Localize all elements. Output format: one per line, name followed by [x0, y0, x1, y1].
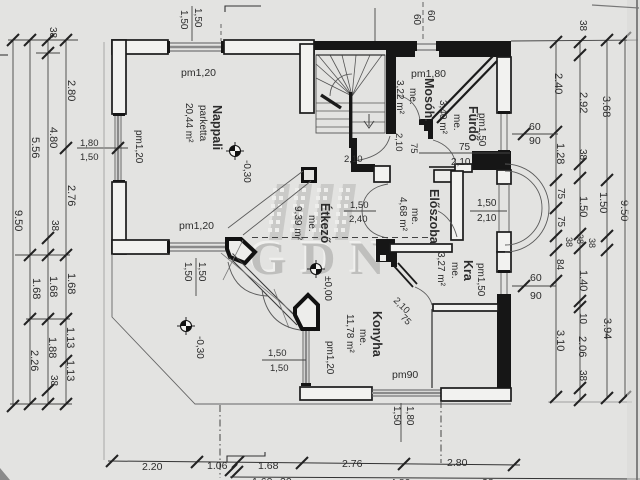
- bottom bracket 1.68: [227, 452, 265, 462]
- bottom ticks: [106, 455, 520, 471]
- svg-text:me.: me.: [449, 262, 460, 279]
- wall top stairs black: [314, 41, 386, 50]
- svg-text:pm1,20: pm1,20: [181, 67, 216, 79]
- svg-text:pm1,20: pm1,20: [133, 130, 144, 164]
- svg-text:2,40: 2,40: [349, 214, 368, 225]
- svg-text:38: 38: [577, 370, 588, 382]
- window W1 top Nappali: [167, 41, 224, 53]
- wall end block diagonal: [419, 119, 433, 131]
- staircase newel bar: [349, 92, 352, 148]
- chamfer door leaf perpendicular 2: [274, 289, 289, 328]
- svg-text:38: 38: [47, 27, 58, 39]
- svg-text:2.80: 2.80: [447, 457, 468, 469]
- svg-text:1,50: 1,50: [350, 200, 369, 211]
- svg-text:90: 90: [529, 135, 541, 147]
- svg-text:1,50: 1,50: [192, 8, 203, 28]
- beam line column to chamfer 2: [243, 181, 311, 235]
- svg-text:Konyha: Konyha: [370, 311, 384, 358]
- svg-text:1.68: 1.68: [258, 460, 279, 472]
- svg-text:pm1,20: pm1,20: [179, 220, 214, 232]
- dim line Fürdő door: [419, 152, 510, 154]
- staircase rail diagonal: [321, 95, 341, 108]
- chamfer door swing arc 2: [262, 290, 300, 330]
- svg-text:1.68: 1.68: [30, 278, 42, 299]
- left chain line 2: [29, 40, 31, 404]
- svg-text:2.76: 2.76: [342, 458, 363, 470]
- svg-text:1,50: 1,50: [477, 198, 497, 209]
- window W2 top 60: [414, 41, 439, 51]
- wall top middle: [224, 40, 314, 54]
- svg-text:9,39 m²: 9,39 m²: [292, 206, 303, 241]
- dashed opening line Étkező Konyha: [252, 237, 428, 239]
- svg-text:me.: me.: [306, 215, 317, 232]
- right chain line 4: [624, 38, 626, 397]
- scan shading right edge: [627, 0, 640, 480]
- svg-text:38: 38: [564, 237, 574, 247]
- right top connector: [511, 40, 638, 41]
- wall top Mosóh thicker: [386, 41, 415, 57]
- stair inner top line: [316, 54, 385, 56]
- right chain line 2: [579, 42, 581, 400]
- diagonal wall Mosóh Fürdő: [432, 56, 497, 123]
- wall corridor horizontal: [351, 164, 375, 172]
- svg-text:Mosóh.: Mosóh.: [422, 78, 436, 122]
- door Fürdő arc: [433, 140, 456, 165]
- svg-text:Előszoba: Előszoba: [427, 189, 441, 245]
- right ticks: [550, 32, 631, 406]
- level marker Konyha: [307, 260, 325, 278]
- wall Kamra west: [391, 252, 397, 267]
- staircase outline: [316, 55, 385, 133]
- svg-text:me.: me.: [409, 208, 420, 225]
- chamfer door leaf perpendicular 1: [223, 240, 243, 280]
- svg-text:1.13: 1.13: [64, 360, 76, 381]
- svg-text:4.80: 4.80: [47, 127, 59, 148]
- svg-text:3.68: 3.68: [600, 96, 612, 117]
- svg-text:1.50: 1.50: [597, 192, 609, 213]
- wall corner pentagon P2 chamfer bottom: [295, 295, 318, 329]
- door entrance arc: [438, 211, 457, 237]
- staircase down arrow: [364, 114, 374, 128]
- svg-text:Étkező: Étkező: [318, 203, 333, 244]
- svg-text:me.: me.: [407, 88, 418, 105]
- top dashed extension 423: [422, 2, 424, 41]
- wall Előszoba Kamra horizontal: [390, 244, 452, 252]
- svg-text:10: 10: [577, 313, 588, 325]
- svg-text:1.60: 1.60: [252, 476, 273, 480]
- double door Étkező arc top: [362, 184, 388, 211]
- svg-text:1,50: 1,50: [80, 152, 99, 163]
- entrance opening reveal: [499, 184, 509, 232]
- wall entry stub: [451, 171, 463, 240]
- chamfer door swing arc 1: [228, 262, 268, 296]
- left chain line 3: [47, 40, 49, 404]
- svg-text:±0,00: ±0,00: [322, 276, 333, 301]
- svg-text:me.: me.: [451, 114, 462, 131]
- bottom dash-dot extension right: [440, 401, 442, 463]
- door Kamra leaf: [394, 263, 417, 287]
- right bottom connector: [548, 401, 632, 403]
- svg-text:1.50: 1.50: [577, 196, 589, 217]
- wall bottom Konyha west part: [300, 387, 372, 400]
- svg-text:pm1,20: pm1,20: [324, 341, 335, 375]
- extension line left of building: [103, 42, 105, 460]
- dim line 1,80 1,50 left: [77, 147, 128, 149]
- line Konyha west counter: [431, 309, 433, 388]
- svg-text:1,50: 1,50: [182, 262, 193, 282]
- left bottom connector: [10, 403, 72, 405]
- svg-text:75: 75: [555, 216, 566, 228]
- svg-text:2,10: 2,10: [344, 154, 363, 165]
- svg-text:1.68: 1.68: [65, 273, 77, 294]
- wall block east mid black: [472, 151, 511, 170]
- svg-text:pm1,50: pm1,50: [476, 113, 487, 147]
- svg-text:90: 90: [530, 290, 542, 302]
- svg-text:parketta: parketta: [197, 105, 208, 142]
- left top connector: [8, 39, 78, 41]
- svg-text:38: 38: [48, 375, 59, 387]
- scan mark bottom left: [0, 468, 10, 480]
- svg-text:1.40: 1.40: [577, 270, 589, 291]
- dim line chamfer 1,50 1,50: [195, 258, 197, 296]
- wall left lower: [112, 182, 126, 254]
- paper edge right: [636, 0, 638, 480]
- wall east Kamra: [497, 252, 511, 272]
- top extension solid 375: [374, 8, 376, 41]
- column pillar: [303, 169, 316, 182]
- wall top right black: [439, 41, 511, 57]
- bottom double slash: [225, 464, 243, 478]
- svg-text:1,50: 1,50: [196, 262, 207, 282]
- svg-text:1,50: 1,50: [270, 363, 289, 374]
- svg-text:2,10: 2,10: [451, 157, 471, 168]
- svg-text:Nappali: Nappali: [210, 105, 224, 150]
- wall corner block Előszoba: [376, 239, 395, 262]
- left chain line 4: [65, 40, 67, 404]
- svg-text:1,80: 1,80: [404, 406, 415, 426]
- interior wall Nappali stairs: [300, 44, 314, 113]
- dim line Étkező door 1,50 2,40: [344, 210, 376, 212]
- dim line pm90 window 1,80 1,50: [400, 403, 402, 442]
- wall east below door: [497, 232, 511, 252]
- dim line entrance 1,50 2,10: [470, 210, 507, 212]
- svg-text:-0,30: -0,30: [194, 336, 205, 359]
- door Mosóh arc: [398, 95, 420, 120]
- wall Előszoba west stub: [374, 166, 390, 182]
- svg-text:3,40 m²: 3,40 m²: [437, 100, 448, 135]
- svg-text:38: 38: [49, 220, 60, 232]
- left chain line 1: [12, 40, 14, 406]
- svg-text:75: 75: [459, 142, 471, 153]
- wall east upper hollow: [497, 57, 511, 113]
- window W6 Konyha south: [372, 390, 441, 396]
- svg-text:2.92: 2.92: [577, 92, 589, 113]
- svg-text:1.06: 1.06: [207, 460, 228, 472]
- wall Fürdő corridor vertical: [428, 125, 433, 139]
- bottom chain line 2: [230, 477, 640, 479]
- left connector 38: [36, 52, 60, 54]
- bottom dash-dot extension left: [219, 405, 221, 478]
- door D1 corridor arc: [354, 136, 390, 161]
- window W7 Fürdő east: [498, 111, 510, 153]
- chamfer exterior face line: [221, 253, 315, 331]
- svg-text:pm90: pm90: [392, 369, 418, 381]
- svg-text:3,22 m²: 3,22 m²: [394, 80, 405, 115]
- svg-text:1,50: 1,50: [178, 10, 189, 30]
- svg-text:38: 38: [577, 20, 588, 32]
- svg-text:3.94: 3.94: [601, 318, 613, 339]
- window W3 left Nappali: [113, 113, 125, 183]
- svg-text:11,78 m²: 11,78 m²: [344, 314, 355, 353]
- wall Fürdő jamb lines: [429, 167, 455, 182]
- bottom chain line 1: [108, 461, 520, 465]
- svg-text:2,10: 2,10: [393, 133, 404, 152]
- top dashed extension: [220, 24, 222, 41]
- scan mark left: [0, 54, 8, 56]
- svg-text:2.06: 2.06: [576, 336, 588, 357]
- window W4 bottom Nappali: [167, 241, 226, 253]
- svg-text:60: 60: [411, 14, 422, 26]
- porch arc inner: [505, 171, 542, 245]
- svg-text:60: 60: [425, 10, 436, 22]
- svg-text:1.13: 1.13: [64, 327, 76, 348]
- level marker Nappali: [226, 142, 244, 160]
- left ticks: [7, 34, 72, 412]
- svg-text:3,27 m²: 3,27 m²: [435, 252, 446, 287]
- chamfer french door leaf double line: [229, 254, 301, 326]
- staircase treads: [316, 55, 385, 127]
- right chain line 1: [555, 42, 557, 397]
- svg-text:5.56: 5.56: [29, 137, 41, 158]
- svg-text:1.68: 1.68: [47, 276, 59, 297]
- svg-text:60: 60: [529, 121, 541, 133]
- svg-text:2.26: 2.26: [28, 350, 40, 371]
- svg-text:-0,30: -0,30: [241, 160, 252, 183]
- svg-text:2.76: 2.76: [65, 185, 77, 206]
- porch arc outer: [505, 164, 549, 252]
- svg-text:pm1,50: pm1,50: [475, 263, 486, 297]
- paper edge top-right: [592, 5, 639, 8]
- left connector mid: [15, 254, 70, 256]
- svg-text:2.40: 2.40: [552, 73, 564, 94]
- wall bottom Konyha east part: [441, 388, 511, 401]
- right chain line 3: [606, 40, 608, 398]
- wall corner pentagon P1 chamfer top: [227, 239, 255, 263]
- wall stairs east black: [386, 55, 396, 134]
- window W5 Konyha west: [301, 331, 311, 386]
- svg-text:1,50: 1,50: [391, 406, 402, 426]
- svg-text:2.20: 2.20: [142, 461, 163, 473]
- svg-text:3.10: 3.10: [554, 330, 566, 351]
- top window extension: [191, 6, 193, 41]
- terrace outline: [112, 254, 511, 404]
- wall corridor small vertical: [351, 138, 357, 172]
- svg-text:1,50: 1,50: [268, 348, 287, 359]
- svg-text:1.28: 1.28: [554, 143, 566, 164]
- svg-text:1,80: 1,80: [80, 138, 99, 149]
- svg-text:38: 38: [587, 238, 597, 248]
- svg-text:me.: me.: [357, 329, 368, 346]
- level marker chamfer: [177, 317, 195, 335]
- beam line column to chamfer 1: [228, 171, 303, 228]
- svg-text:1.88: 1.88: [46, 337, 58, 358]
- svg-text:84: 84: [554, 259, 565, 271]
- svg-text:2.80: 2.80: [65, 80, 77, 101]
- dim line Kamra window 60: [512, 285, 556, 287]
- wall left upper: [112, 40, 126, 114]
- svg-text:Kra: Kra: [461, 260, 475, 282]
- svg-text:38: 38: [575, 234, 585, 244]
- svg-text:75: 75: [408, 143, 419, 154]
- wall Kamra south: [433, 304, 498, 311]
- left connector low: [26, 318, 70, 320]
- svg-text:38: 38: [577, 149, 588, 161]
- svg-text:9.50: 9.50: [12, 210, 24, 231]
- svg-text:20: 20: [280, 476, 292, 480]
- svg-text:20,44 m²: 20,44 m²: [183, 103, 194, 143]
- svg-text:4,68 m²: 4,68 m²: [397, 197, 408, 232]
- dim line Fürdő window 60: [512, 133, 558, 135]
- svg-text:2,10: 2,10: [477, 213, 497, 224]
- top bracket: [225, 6, 261, 12]
- wall top-left horizontal: [112, 40, 168, 54]
- wall bottom-left horizontal: [112, 240, 169, 254]
- wall Fürdő corridor horizontal: [455, 164, 472, 172]
- GDN logo towers: [269, 184, 356, 240]
- window W8 Kamra east: [498, 270, 510, 294]
- dim line Konyha window 1,50: [262, 359, 306, 361]
- svg-text:75: 75: [555, 188, 566, 200]
- wall east above door: [497, 170, 511, 184]
- double door Étkező arc bottom: [362, 211, 388, 238]
- wall east Konyha black: [497, 294, 511, 388]
- door Kamra arc: [415, 287, 432, 305]
- svg-text:60: 60: [530, 272, 542, 284]
